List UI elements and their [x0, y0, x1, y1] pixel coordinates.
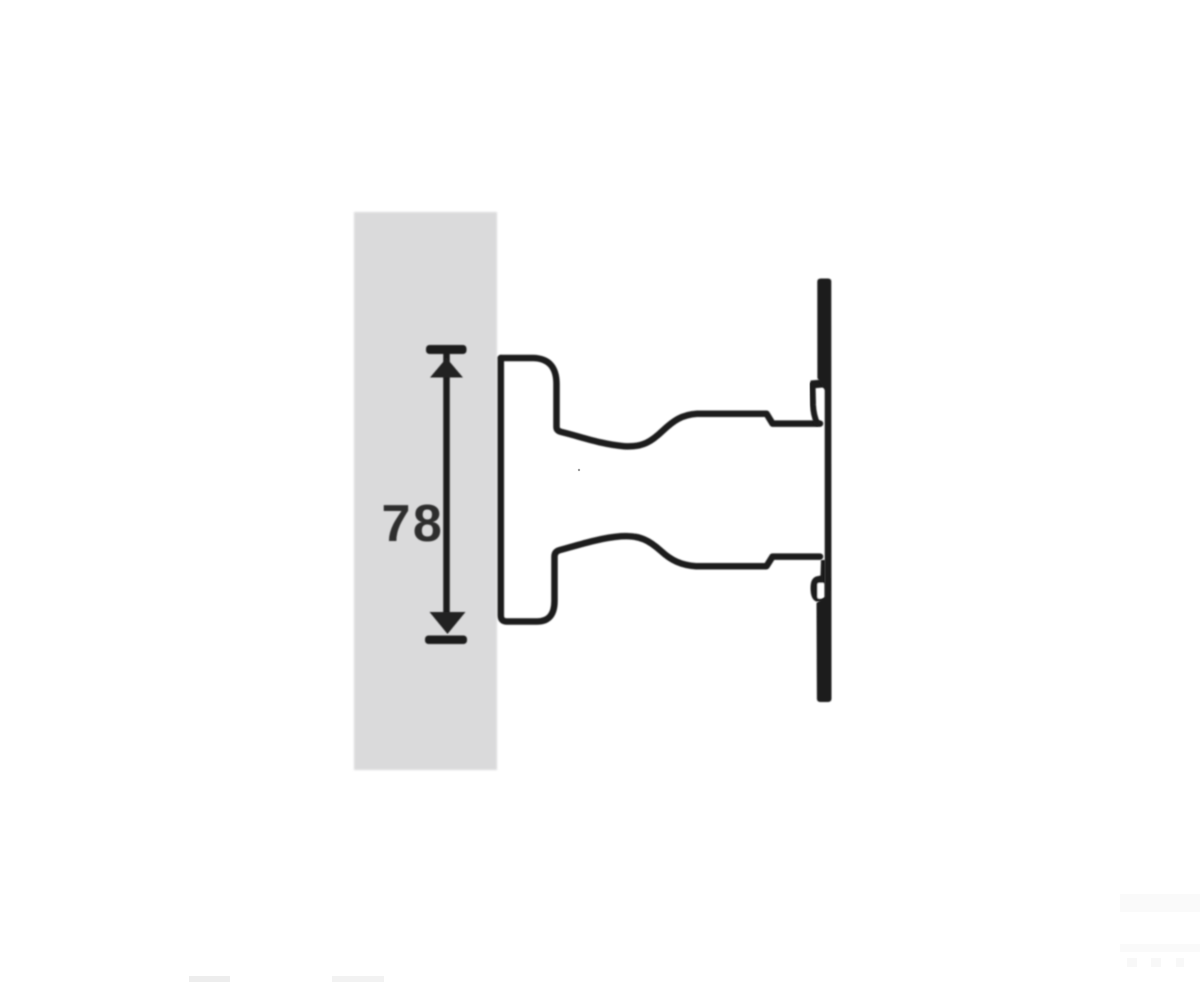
dimension shaft — [443, 353, 450, 617]
lower hook notch — [818, 583, 825, 599]
dimension bottom tick — [425, 636, 467, 645]
svg-text:78: 78 — [382, 495, 445, 553]
dimension top arrowhead — [430, 358, 463, 378]
watermark block bottom-right 1 — [1120, 894, 1200, 912]
bracket wall-plate top + upper arm — [501, 358, 820, 446]
bracket wall-plate left/bottom + lower arm — [501, 358, 820, 622]
watermark smudge bottom-left — [189, 976, 230, 982]
upper hook leg — [813, 384, 818, 423]
tiny speck — [578, 469, 580, 471]
dimension bottom arrowhead — [430, 612, 466, 634]
wall (gray panel) — [354, 212, 497, 770]
lower hook body — [811, 560, 826, 602]
watermark block bottom-right 2 — [1120, 944, 1200, 952]
mounted panel (vertical bar, thick ends) — [817, 279, 832, 703]
watermark dots bottom-right — [1127, 958, 1137, 967]
upper hook top bar — [811, 379, 829, 389]
watermark smudge bottom-left 2 — [332, 976, 384, 982]
dimension top tick — [426, 345, 467, 354]
